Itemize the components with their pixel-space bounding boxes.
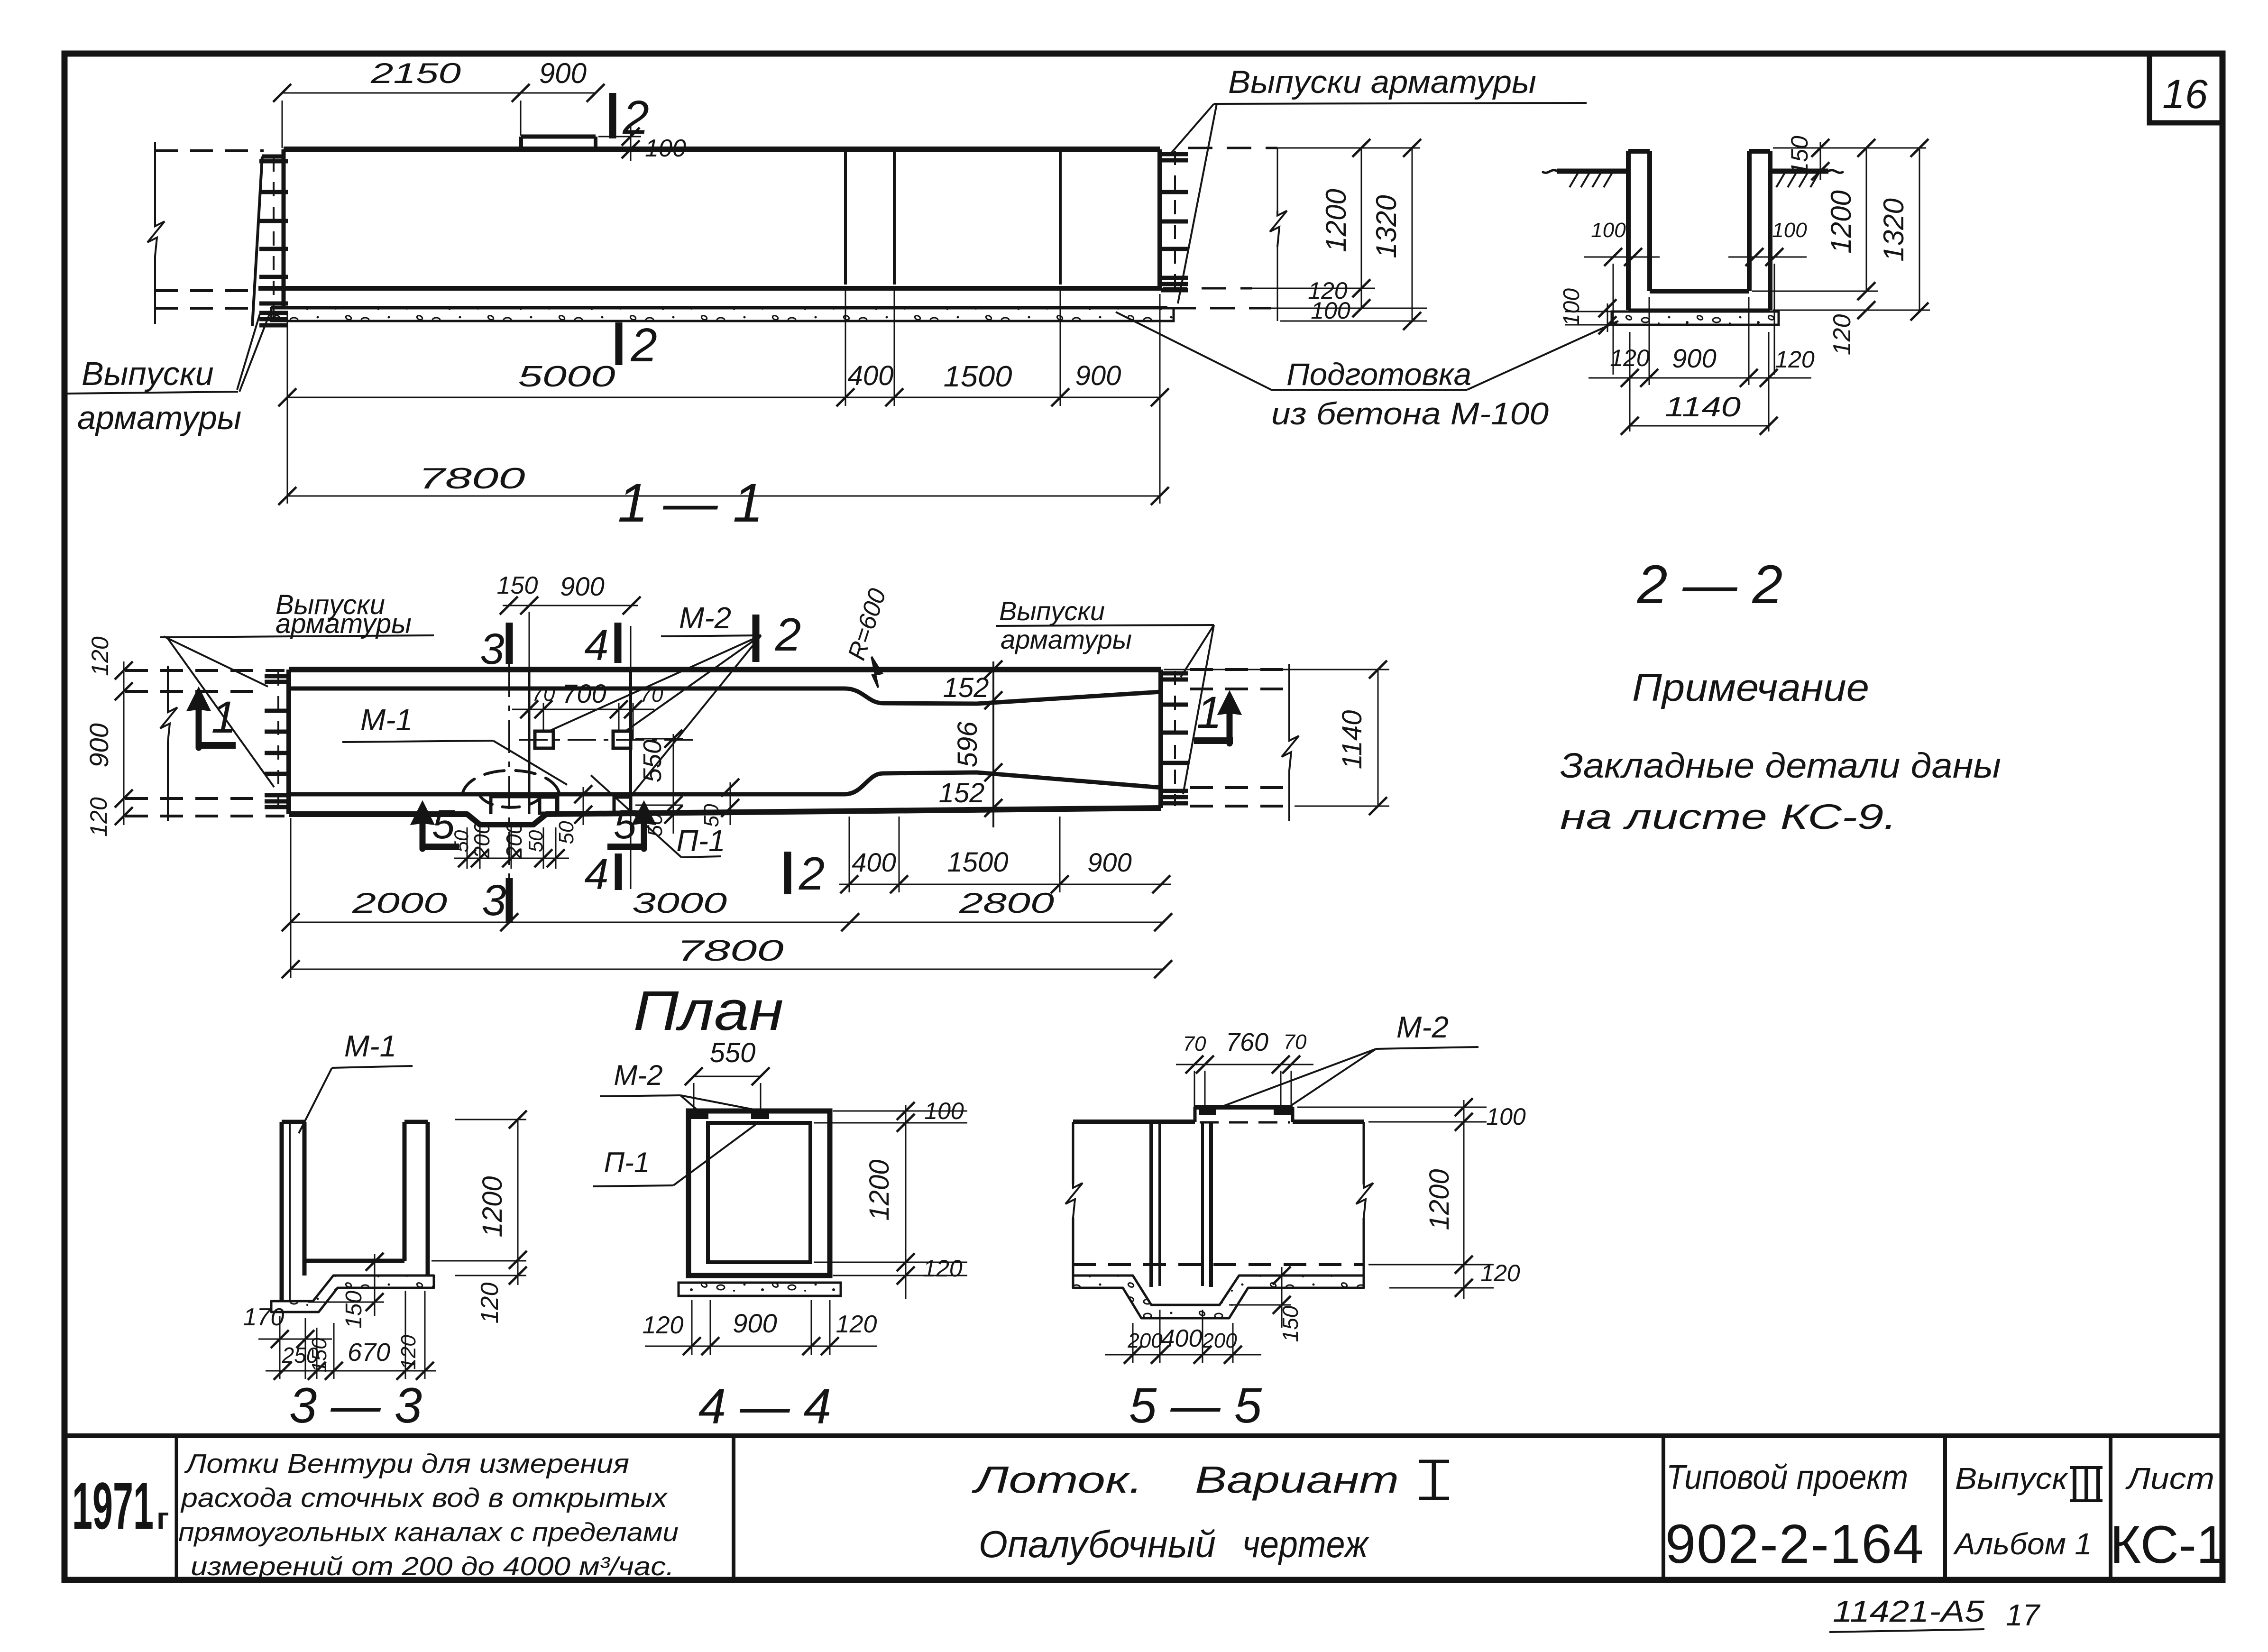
svg-text:400: 400 [852, 847, 896, 877]
svg-text:120: 120 [1775, 346, 1815, 373]
section 5-5 plates М-2 filled [1200, 1109, 1215, 1114]
dim 100 right wall [1728, 257, 1807, 258]
plan dashed continuation right [1190, 668, 1292, 671]
svg-text:Лотки Вентури для измерения: Лотки Вентури для измерения [184, 1449, 629, 1479]
dim 7800 plan [291, 969, 1163, 970]
svg-text:2 — 2: 2 — 2 [1637, 554, 1783, 615]
svg-text:1200: 1200 [1825, 190, 1857, 253]
section mark 2 upper [609, 93, 616, 138]
section 2-2 slab bottom [1628, 309, 1770, 312]
dim 7800 section 1-1 [287, 496, 1160, 497]
dim 150 sump depth 5-5 [1281, 1267, 1283, 1328]
section 1-1 body top edge [284, 147, 1160, 152]
svg-text:измерений от 200 до 4000 м: измерений от 200 до 4000 м³/час. [191, 1551, 674, 1581]
svg-text:Выпуски арматуры: Выпуски арматуры [1228, 64, 1536, 100]
plan right rebar outlets [1174, 671, 1176, 806]
leaders to right rebar [1170, 104, 1214, 154]
svg-text:арматуры: арматуры [275, 608, 412, 639]
svg-text:3000: 3000 [632, 887, 727, 919]
extension lines to dim rows [287, 313, 288, 504]
section 4-4 right dims [833, 1111, 967, 1112]
section 4-4 outer box [689, 1111, 830, 1276]
svg-text:Выпуски: Выпуски [999, 596, 1105, 626]
svg-text:100: 100 [1591, 219, 1626, 242]
svg-text:Выпуски: Выпуски [82, 355, 214, 392]
embedded plate М-2 squares upper [535, 731, 553, 748]
svg-text:120: 120 [397, 1335, 420, 1370]
svg-text:1320: 1320 [1878, 198, 1910, 261]
dim 152 596 152 with ticks [992, 661, 994, 827]
svg-text:М-2: М-2 [614, 1059, 662, 1091]
section 2-2 left wall [1626, 151, 1631, 310]
svg-text:152: 152 [943, 672, 989, 703]
svg-text:550: 550 [638, 740, 667, 782]
svg-text:150: 150 [308, 1338, 331, 1373]
section 5-5 top slab with raised plate zone [1073, 1120, 1195, 1124]
svg-text:70: 70 [532, 682, 555, 706]
svg-text:902-2-164: 902-2-164 [1665, 1513, 1925, 1575]
svg-text:Подготовка: Подготовка [1286, 357, 1471, 392]
svg-text:150: 150 [1786, 136, 1813, 175]
svg-text:16: 16 [2162, 72, 2208, 117]
svg-text:П-1: П-1 [676, 824, 725, 858]
svg-text:2: 2 [799, 847, 825, 899]
plan section mark 2 lower [784, 852, 791, 894]
svg-text:120: 120 [836, 1311, 877, 1338]
svg-text:100: 100 [1486, 1103, 1526, 1130]
svg-text:670: 670 [348, 1338, 390, 1367]
svg-text:200: 200 [502, 822, 526, 859]
svg-text:50: 50 [555, 821, 578, 844]
plan inner bottom wall line [289, 772, 1161, 794]
section 1-1 left end wall [262, 155, 284, 159]
svg-text:400: 400 [848, 360, 894, 391]
leader to left rebar label [237, 314, 260, 390]
svg-text:3: 3 [482, 876, 506, 925]
dim 550 vertical [673, 734, 674, 811]
dim 1140 section 2-2 [1630, 425, 1769, 427]
svg-text:11421-А5: 11421-А5 [1833, 1594, 1984, 1628]
svg-text:70: 70 [1183, 1032, 1206, 1055]
svg-text:7800: 7800 [419, 462, 525, 495]
section 4-4 embedded plates М-2 [691, 1112, 707, 1118]
dim 70 700 70 [512, 709, 654, 710]
embedded plate М-2 squares lower [540, 797, 557, 813]
svg-text:550: 550 [710, 1037, 756, 1068]
svg-text:1200: 1200 [477, 1176, 508, 1237]
section mark 2 lower [615, 322, 623, 365]
plan joint line at 1116 [528, 670, 531, 814]
svg-text:70: 70 [640, 683, 663, 707]
dim 100 left wall [1584, 257, 1660, 258]
svg-text:1971: 1971 [72, 1468, 154, 1543]
svg-text:3 — 3: 3 — 3 [289, 1378, 422, 1433]
svg-text:1320: 1320 [1370, 195, 1402, 258]
svg-text:Закладные детали даны: Закладные детали даны [1560, 746, 2001, 785]
section 3-3 right wall [403, 1122, 407, 1261]
dim 1320 section 2-2 [1919, 148, 1920, 312]
section 4-4 concrete prep [679, 1283, 841, 1296]
svg-text:М-1: М-1 [360, 703, 413, 737]
svg-text:120: 120 [476, 1283, 504, 1324]
svg-text:900: 900 [1087, 847, 1131, 877]
plan section 4 cut line [630, 626, 632, 889]
svg-text:150: 150 [497, 572, 538, 599]
sheet number box 16 [2149, 54, 2222, 123]
section 1-1 right rebar outlets [1174, 151, 1176, 290]
svg-text:Лист: Лист [2125, 1461, 2214, 1496]
section 1-1 left wall rebar outlets [259, 159, 288, 164]
section 3-3 stepped prep slab [271, 1276, 434, 1312]
dims 70 760 70 top of 5-5 [1176, 1064, 1313, 1065]
plan left break line [167, 666, 169, 709]
svg-text:Альбом 1: Альбом 1 [1953, 1527, 2092, 1561]
svg-text:100: 100 [1311, 297, 1350, 324]
section 5-5 right edge with break [1363, 1122, 1365, 1184]
svg-text:100: 100 [924, 1098, 964, 1124]
svg-text:152: 152 [939, 778, 985, 808]
title block top line [64, 1433, 2222, 1438]
dim 1200 vertical [1361, 148, 1362, 308]
section 3-3 right dims [455, 1119, 526, 1120]
svg-text:2800: 2800 [959, 887, 1054, 919]
svg-text:120: 120 [1828, 314, 1856, 356]
dim 1140 plan right [1377, 670, 1379, 806]
plan section mark 2 upper [753, 615, 760, 662]
dim 550 plates [694, 1076, 761, 1077]
section arrows 5 [415, 807, 430, 849]
svg-text:3: 3 [480, 625, 504, 673]
section 1-1 left extension line with break [154, 142, 156, 223]
svg-text:900: 900 [560, 571, 604, 601]
svg-text:Типовой проект: Типовой проект [1666, 1459, 1908, 1496]
svg-text:План: План [634, 980, 784, 1042]
svg-text:100: 100 [1772, 219, 1807, 242]
plan left rebar outlets [277, 671, 279, 815]
plan right break line [1288, 664, 1290, 737]
svg-text:Примечание: Примечание [1632, 666, 1869, 709]
svg-text:100: 100 [645, 135, 686, 162]
svg-text:П-1: П-1 [604, 1147, 650, 1178]
svg-text:на листе КС-9.: на листе КС-9. [1560, 797, 1897, 836]
plan outer top edge [289, 667, 1161, 672]
section 5-5 right dims [1297, 1107, 1487, 1108]
title block dividers [175, 1436, 178, 1580]
svg-text:50: 50 [450, 830, 472, 852]
svg-text:7800: 7800 [677, 935, 784, 967]
svg-text:Опалубочный: Опалубочный [979, 1523, 1216, 1565]
svg-text:1140: 1140 [1665, 392, 1741, 422]
dim row 5000 400 1500 900 [287, 397, 1160, 398]
plan right end wall [1158, 670, 1163, 808]
section 2-2 right wall [1747, 151, 1752, 291]
svg-text:г: г [156, 1501, 169, 1535]
section 1-1 floor line [258, 286, 1160, 291]
svg-text:М-2: М-2 [679, 601, 731, 635]
section 1-1 body joints [844, 149, 847, 285]
svg-text:120: 120 [85, 797, 112, 837]
plan sump dashed arc [462, 771, 560, 794]
svg-text:760: 760 [1226, 1028, 1268, 1056]
svg-text:5: 5 [614, 802, 637, 847]
svg-text:1200: 1200 [864, 1159, 895, 1221]
svg-text:арматуры: арматуры [77, 399, 241, 436]
svg-text:200: 200 [1202, 1329, 1237, 1352]
section 3-3 floor [304, 1259, 404, 1263]
section 5-5 sump walls [1149, 1122, 1153, 1287]
svg-text:из бетона М-100: из бетона М-100 [1271, 396, 1549, 431]
svg-text:2150: 2150 [370, 57, 461, 89]
svg-text:КС-1: КС-1 [2110, 1515, 2226, 1574]
svg-text:120: 120 [1480, 1260, 1520, 1286]
svg-text:Выпуск: Выпуск [1955, 1461, 2069, 1496]
svg-text:5 — 5: 5 — 5 [1129, 1378, 1262, 1433]
svg-text:М-1: М-1 [344, 1029, 396, 1063]
svg-text:4: 4 [584, 621, 608, 670]
section 5-5 hidden line under plate zone [1200, 1121, 1290, 1124]
dim 150 ground depth [1820, 142, 1821, 180]
svg-text:2: 2 [622, 91, 649, 144]
section 2-2 ground line right with soil hatch [1770, 169, 1828, 174]
svg-text:М-2: М-2 [1396, 1010, 1449, 1044]
plan section 3 cut line [508, 664, 510, 922]
svg-text:арматуры: арматуры [1001, 624, 1132, 654]
section 3-3 left wall with М-1 plate [280, 1122, 284, 1301]
dim 150 sump step [374, 1254, 376, 1316]
section arrow 1 left [192, 693, 206, 748]
svg-text:70: 70 [1284, 1030, 1307, 1054]
svg-text:2000: 2000 [352, 887, 447, 919]
svg-text:1500: 1500 [947, 847, 1008, 878]
svg-text:2: 2 [630, 319, 657, 372]
section 2-2 ground line left with soil hatch [1557, 169, 1628, 174]
section 2-2 concrete prep [1612, 312, 1779, 325]
dim row 2000 3000 2800 [291, 922, 1163, 923]
svg-text:120: 120 [87, 636, 113, 676]
section 2-2 top extension [1773, 147, 1926, 149]
svg-text:1 — 1: 1 — 1 [618, 473, 763, 533]
plan section 3 marks [506, 623, 513, 664]
section 2-2 floor [1650, 289, 1749, 294]
plan outer bottom edge with sump bulge [289, 808, 1161, 825]
svg-text:150: 150 [1278, 1305, 1303, 1342]
leader to prep strip of 1-1 [1116, 312, 1271, 390]
svg-text:Вариант: Вариант [1195, 1459, 1399, 1501]
plan left dim line 120 900 120 [123, 661, 125, 825]
plan joint line at 1330 [629, 670, 632, 808]
section 1-1 right extension lines [1188, 147, 1277, 149]
svg-text:4: 4 [584, 850, 608, 899]
svg-text:900: 900 [1672, 343, 1716, 373]
svg-text:2: 2 [775, 608, 801, 661]
right vertical line with break [1277, 148, 1278, 211]
dim row 120 900 120 section 2-2 [1589, 377, 1811, 379]
section 1-1 left dashed top edge [155, 149, 264, 152]
svg-text:120: 120 [643, 1312, 684, 1339]
section 1-1 left dashed floor lines [155, 289, 258, 292]
svg-text:120: 120 [923, 1255, 963, 1282]
svg-text:Лоток.: Лоток. [971, 1459, 1143, 1501]
svg-text:1200: 1200 [1424, 1169, 1455, 1230]
section 1-1 right end wall [1157, 149, 1162, 291]
svg-text:расхода сточных вод в открытых: расхода сточных вод в открытых [180, 1483, 669, 1513]
svg-text:900: 900 [733, 1308, 777, 1338]
svg-text:700: 700 [562, 679, 606, 708]
dim 2150 and 900 top [282, 92, 596, 94]
section 5-5 bottom dims 200 400 200 [1105, 1354, 1261, 1356]
dim 150 900 plan top [503, 605, 638, 606]
section 1-1 concrete prep strip [271, 308, 1174, 321]
section 4-4 inner opening [708, 1123, 810, 1262]
section 1-1 slab bottom [271, 306, 1167, 309]
svg-text:чертеж: чертеж [1242, 1523, 1369, 1565]
plan inner top wall line [289, 688, 1161, 704]
svg-text:4 — 4: 4 — 4 [698, 1379, 831, 1434]
section arrow 1 right [1222, 697, 1237, 743]
svg-text:400: 400 [1161, 1325, 1203, 1352]
svg-text:900: 900 [1075, 360, 1121, 391]
dim 170 [258, 1339, 332, 1340]
section 5-5 dashed floor line [1073, 1263, 1364, 1266]
svg-text:1: 1 [211, 692, 237, 743]
svg-text:прямоугольных каналах с предел: прямоугольных каналах с пределами [178, 1517, 679, 1547]
svg-text:17: 17 [2006, 1598, 2041, 1632]
plan dashed extension left [125, 669, 285, 672]
svg-text:900: 900 [84, 723, 114, 767]
svg-text:5000: 5000 [518, 360, 615, 393]
plan left end wall [286, 670, 291, 814]
svg-text:1140: 1140 [1337, 710, 1368, 770]
dim 100 step height [598, 136, 641, 138]
svg-text:150: 150 [341, 1291, 367, 1329]
leader to prep strip of 2-2 [1467, 321, 1618, 390]
section 5-5 left edge with break [1072, 1122, 1074, 1184]
dim 120 slab rotated [1857, 301, 1875, 319]
dim 1200 section 2-2 [1866, 148, 1867, 291]
section 3-3 bottom dim row [266, 1370, 436, 1372]
plan centerline through plates [519, 739, 697, 741]
svg-text:100: 100 [1559, 288, 1584, 326]
plan section 4 marks [615, 623, 622, 663]
section 5-5 prep slab with sump [1073, 1276, 1364, 1318]
section 1-1 raised step 900x100 [521, 135, 596, 139]
svg-text:596: 596 [952, 721, 983, 768]
dim 1320 vertical [1412, 148, 1413, 321]
svg-text:900: 900 [539, 57, 587, 89]
plan sump walls [489, 794, 493, 814]
dim row 400 1500 900 plan [839, 884, 1171, 885]
svg-text:1200: 1200 [1320, 189, 1352, 252]
svg-text:1500: 1500 [944, 360, 1012, 393]
section 4-4 bottom dims [645, 1346, 877, 1347]
svg-text:170: 170 [243, 1303, 285, 1331]
